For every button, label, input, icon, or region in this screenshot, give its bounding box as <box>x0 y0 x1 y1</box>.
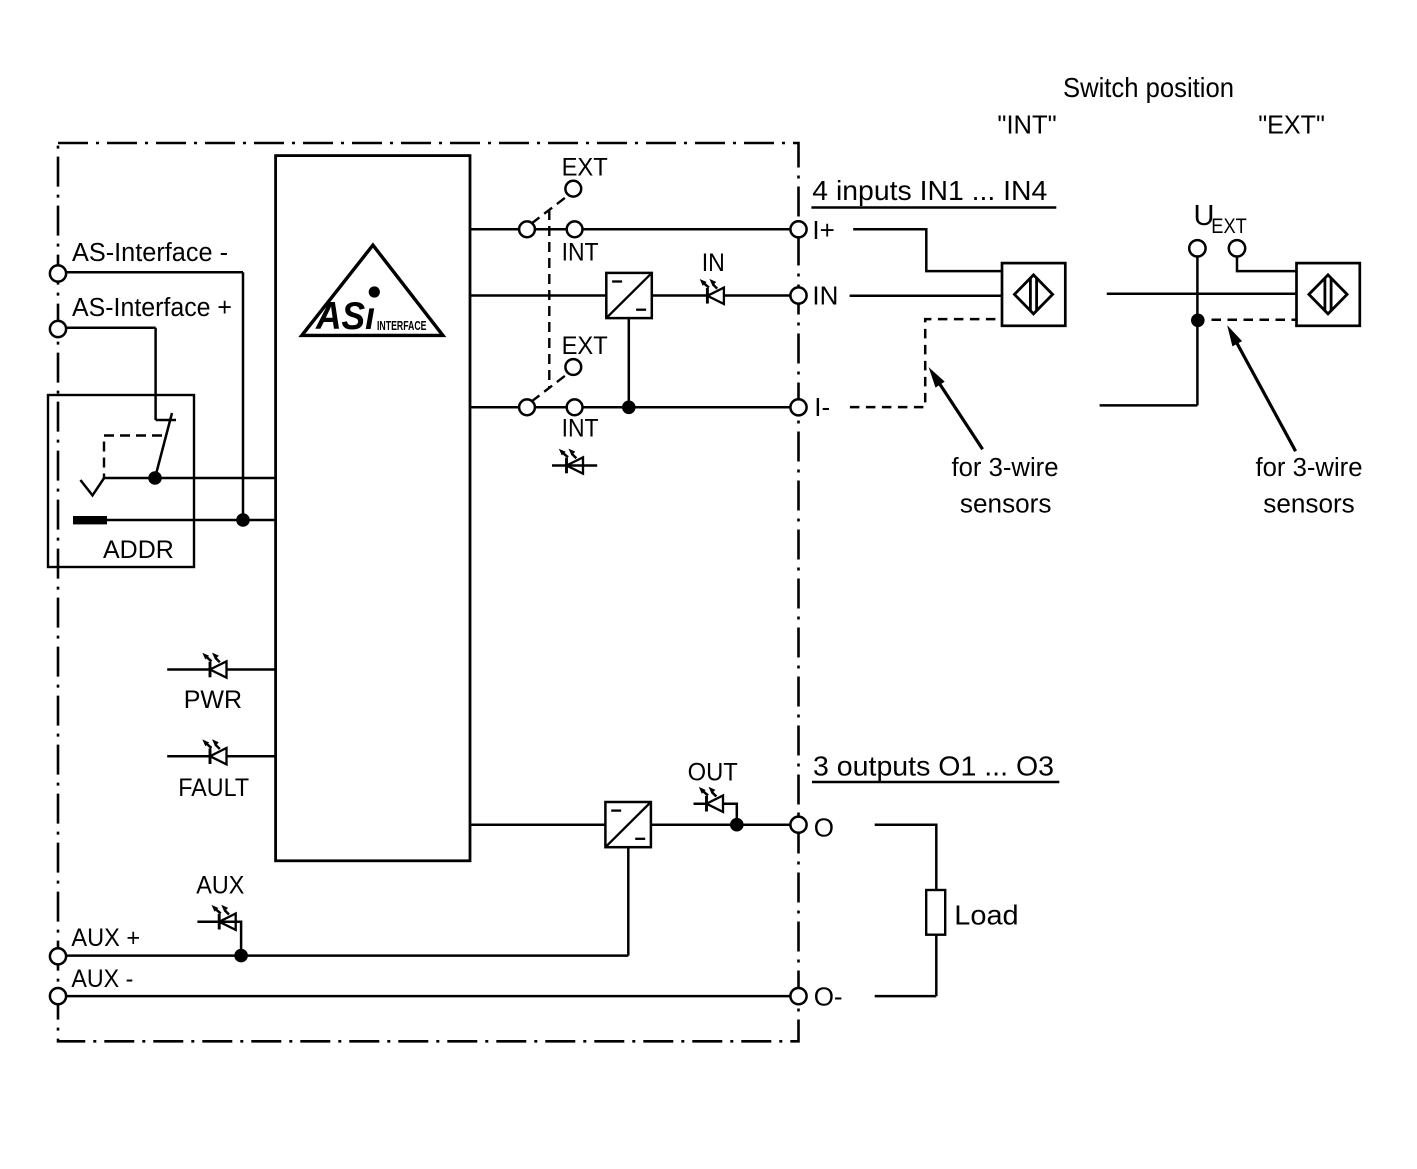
terminal AS-Interface + <box>50 321 66 337</box>
wire IC to LED PWR <box>167 668 275 671</box>
terminal O- <box>790 988 806 1004</box>
svg-text:ADDR: ADDR <box>103 536 174 564</box>
node AUX LED on AUX+ rail <box>234 949 248 963</box>
switch coupling dashed link <box>548 210 550 388</box>
LED INT indicator <box>559 449 583 474</box>
dashed 3-wire link to sensor 2 <box>1212 319 1297 322</box>
wire switch S2 to terminal I- <box>583 406 791 409</box>
svg-text:INTERFACE: INTERFACE <box>377 318 427 333</box>
svg-text:Load: Load <box>954 900 1018 931</box>
switch S2 blade (dashed) <box>532 374 569 402</box>
terminal AUX - <box>50 988 66 1004</box>
ASi logo i dot <box>369 286 380 297</box>
svg-text:FAULT: FAULT <box>178 774 249 802</box>
svg-text:EXT: EXT <box>562 153 608 181</box>
svg-text:AS-Interface -: AS-Interface - <box>72 239 228 267</box>
wire IC to DC/DC U2 <box>470 294 606 297</box>
optocoupler U3 <box>605 802 651 847</box>
svg-text:PWR: PWR <box>184 686 242 714</box>
ASi logo triangle <box>302 245 443 335</box>
wire AS-Interface - vertical drop <box>242 272 245 520</box>
wire AS-Interface + horizontal <box>66 327 155 330</box>
actuator chevron <box>80 478 104 495</box>
svg-text:AUX -: AUX - <box>71 965 133 993</box>
LED AUX lead <box>197 922 241 956</box>
wire between S2 pole and INT throw <box>535 406 566 409</box>
node AS-i- junction <box>236 513 250 527</box>
svg-text:AS-Interface +: AS-Interface + <box>72 294 232 322</box>
LED AUX <box>212 905 236 930</box>
LED IN <box>700 279 724 304</box>
LED OUT <box>699 787 723 812</box>
svg-text:"INT": "INT" <box>997 112 1056 140</box>
switch S1 INT throw circle <box>567 221 583 237</box>
switch S1 EXT throw circle <box>565 181 581 197</box>
wire IC to LED FAULT <box>167 755 275 758</box>
svg-text:IN: IN <box>702 249 725 277</box>
wire AUX+ rail <box>66 954 628 957</box>
AS-Interface slave IC box U1 <box>276 156 470 861</box>
wire pivot to slave IC <box>104 477 276 480</box>
heading underline <box>811 206 1056 209</box>
svg-text:O: O <box>814 813 834 843</box>
wire sensor 2 signal <box>1107 293 1297 296</box>
switch contact in ADDR box <box>156 419 176 422</box>
wire I+ branch to sensor 1 <box>853 229 1002 271</box>
svg-text:INT: INT <box>562 415 599 443</box>
wire UEXT right to sensor 2 top <box>1237 257 1297 271</box>
arrow callout right <box>1236 342 1295 451</box>
svg-text:sensors: sensors <box>960 490 1052 518</box>
svg-text:OUT: OUT <box>688 759 738 787</box>
terminal UEXT left <box>1189 240 1205 256</box>
ADDR probe bar <box>73 516 107 524</box>
node U2 on I- rail <box>622 401 636 415</box>
optocoupler U2 <box>606 273 652 318</box>
wire U2 to LED IN <box>652 294 791 297</box>
wire AS-Interface + drop to ADDR switch <box>154 328 157 420</box>
svg-text:Switch position: Switch position <box>1063 72 1234 103</box>
dashed 3-wire return to I- <box>850 319 1002 407</box>
node OUT LED on O rail <box>730 818 744 832</box>
switch S1 pole circle <box>519 221 535 237</box>
svg-text:I+: I+ <box>812 215 834 245</box>
svg-text:3 outputs O1 ... O3: 3 outputs O1 ... O3 <box>813 751 1054 782</box>
wire between S1 pole and INT throw <box>535 228 566 231</box>
svg-text:for 3-wire: for 3-wire <box>1256 454 1363 482</box>
wire probe bar to slave IC <box>107 519 276 522</box>
wire IC to DC/DC U3 <box>470 823 605 826</box>
terminal O <box>790 817 806 833</box>
svg-text:for 3-wire: for 3-wire <box>952 454 1059 482</box>
wire AUX+ riser to U3 <box>627 848 630 956</box>
sensor B2 (3-wire) <box>1297 263 1360 326</box>
terminal IN <box>790 287 806 303</box>
svg-text:AUX: AUX <box>196 871 244 899</box>
wire IC to input switch 1 <box>470 228 519 231</box>
terminal AUX + <box>50 948 66 964</box>
wire U2 bottom to I- rail <box>628 318 631 407</box>
terminal AS-Interface - <box>50 265 66 281</box>
svg-text:IN: IN <box>812 281 838 311</box>
switch blade in ADDR box <box>155 413 172 478</box>
wire IC to input switch 2 <box>470 406 519 409</box>
switch S2 INT throw circle <box>567 399 583 415</box>
switch S1 blade (dashed) <box>532 196 569 224</box>
svg-text:4 inputs IN1 ... IN4: 4 inputs IN1 ... IN4 <box>812 175 1047 206</box>
switch S2 pole circle <box>519 399 535 415</box>
sensor B1 (2-wire) <box>1002 263 1065 326</box>
switch S2 EXT throw circle <box>565 359 581 375</box>
svg-text:"EXT": "EXT" <box>1258 112 1325 140</box>
node switch pivot <box>148 471 162 485</box>
ADDR box <box>48 395 194 567</box>
svg-text:I-: I- <box>814 392 830 422</box>
terminal UEXT right <box>1229 240 1245 256</box>
wire UEXT left down <box>1196 257 1199 406</box>
arrow callout left <box>939 383 983 449</box>
wire IN to sensor 1 <box>850 295 1002 298</box>
LED FAULT <box>202 739 226 764</box>
svg-text:AUX +: AUX + <box>71 924 140 952</box>
enclosure dash-dot border <box>58 143 799 1041</box>
wire load to O- <box>875 935 937 996</box>
svg-text:EXT: EXT <box>1211 215 1247 238</box>
svg-text:EXT: EXT <box>562 332 608 360</box>
terminal I- <box>790 399 806 415</box>
LED OUT lead <box>694 804 737 825</box>
node UEXT junction <box>1191 314 1205 328</box>
dashed actuator link in ADDR box <box>104 436 162 479</box>
wire switch S1 to terminal I+ <box>583 228 791 231</box>
heading underline <box>812 781 1059 784</box>
wire AS-Interface - horizontal <box>66 271 243 274</box>
svg-text:sensors: sensors <box>1263 490 1355 518</box>
wire U3 to terminal O <box>652 823 791 826</box>
wire AUX- rail to terminal O- <box>66 995 790 998</box>
svg-text:O-: O- <box>814 982 843 1012</box>
LED INT lead <box>552 464 597 467</box>
LED PWR <box>202 653 226 678</box>
wire O to load <box>875 825 937 890</box>
resistor Load <box>926 890 945 935</box>
terminal I+ <box>790 221 806 237</box>
wire 3-wire return bottom <box>1100 404 1198 407</box>
svg-text:ASı: ASı <box>315 295 375 338</box>
svg-text:INT: INT <box>562 239 599 267</box>
